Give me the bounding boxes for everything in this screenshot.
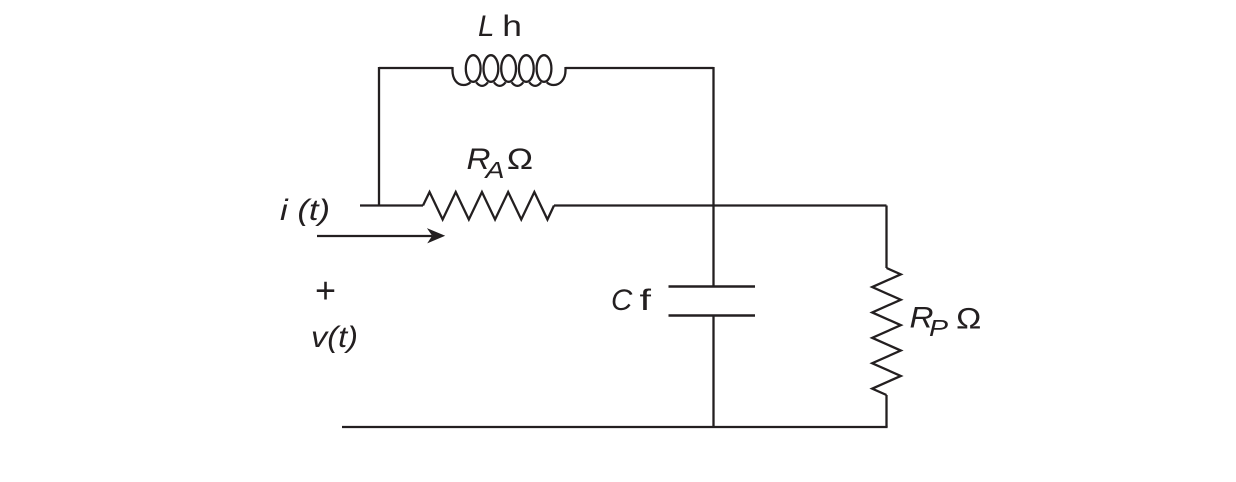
svg-text:i (t): i (t) bbox=[280, 194, 330, 227]
svg-text:+: + bbox=[315, 270, 336, 311]
svg-text:P: P bbox=[929, 315, 949, 341]
wire middle-left stub bbox=[360, 204, 423, 206]
wire right vertical lower bbox=[885, 395, 887, 427]
wire bottom horizontal bbox=[342, 426, 888, 428]
wire middle horizontal bbox=[554, 204, 887, 206]
wire left vertical bbox=[378, 67, 380, 206]
svg-text:h: h bbox=[502, 10, 522, 43]
svg-text:f: f bbox=[640, 284, 653, 317]
wire right vertical upper bbox=[885, 206, 887, 269]
resistor RA zigzag bbox=[423, 192, 554, 220]
svg-text:C: C bbox=[611, 284, 633, 317]
current arrow i(t) bbox=[317, 228, 445, 243]
wire capacitor vertical upper bbox=[712, 67, 714, 286]
svg-text:A: A bbox=[483, 157, 504, 183]
svg-text:L: L bbox=[478, 10, 494, 43]
svg-text:v(t): v(t) bbox=[311, 321, 358, 354]
wire capacitor vertical lower bbox=[712, 317, 714, 428]
capacitor C plates bbox=[669, 287, 756, 316]
inductor L1 coil bbox=[453, 55, 566, 86]
wire top-right horizontal bbox=[566, 67, 714, 69]
wire top-left horizontal bbox=[379, 67, 453, 69]
svg-text:Ω: Ω bbox=[956, 303, 982, 336]
svg-text:Ω: Ω bbox=[507, 143, 534, 176]
resistor RP zigzag bbox=[872, 268, 901, 395]
